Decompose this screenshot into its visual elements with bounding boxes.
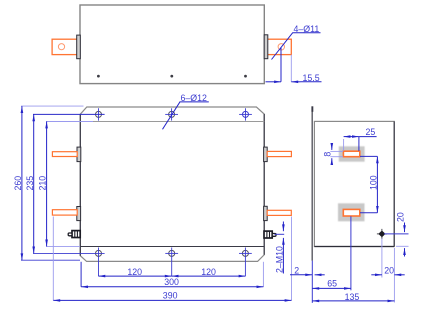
svg-text:235: 235 xyxy=(25,176,35,191)
front left upper terminal xyxy=(52,152,77,157)
ext line body left corner xyxy=(80,262,82,287)
dimension 100 xyxy=(360,156,378,212)
top view left tab hole xyxy=(58,44,64,50)
ext line stud down xyxy=(381,239,383,278)
svg-text:20: 20 xyxy=(384,265,394,275)
hole bottom-middle xyxy=(165,248,178,277)
lower busbar highlight xyxy=(338,203,365,221)
front view outline xyxy=(80,107,264,261)
svg-text:100: 100 xyxy=(368,175,378,190)
front left upper terminal block xyxy=(77,147,81,162)
dimension 8 xyxy=(322,146,343,163)
top view right tab xyxy=(267,39,291,54)
dimension 235 xyxy=(25,114,105,253)
svg-text:210: 210 xyxy=(38,176,48,191)
dimension 210 xyxy=(38,122,93,247)
dimension 390 xyxy=(53,299,291,301)
upper busbar xyxy=(343,151,359,157)
dimension 65 xyxy=(312,279,351,289)
front right upper terminal xyxy=(267,151,291,156)
ext line tab tip xyxy=(290,55,292,82)
svg-text:8: 8 xyxy=(322,152,332,157)
lower busbar xyxy=(343,209,360,216)
top view right terminal block xyxy=(264,35,268,59)
left ground stud xyxy=(68,230,80,238)
dimension 120 left xyxy=(98,275,171,277)
svg-text:2–M10: 2–M10 xyxy=(275,246,285,273)
ext line plate down xyxy=(311,261,313,303)
dimension 2-M10 xyxy=(282,222,284,232)
svg-text:300: 300 xyxy=(164,277,179,287)
side view right edge dark xyxy=(393,121,395,246)
dimension 15.5 xyxy=(266,81,282,83)
dimension 135 xyxy=(312,292,394,302)
svg-text:2: 2 xyxy=(294,266,299,276)
dimension 20 right xyxy=(395,212,405,256)
side view bottom edge dark xyxy=(314,246,394,248)
dimension 300 xyxy=(81,286,263,288)
dimension 2 gap xyxy=(290,266,325,276)
svg-text:120: 120 xyxy=(127,267,142,277)
top view right tab hole xyxy=(278,44,284,50)
top view hole dot 2 xyxy=(170,75,173,78)
hole top-middle xyxy=(165,108,178,120)
top view left tab xyxy=(52,39,77,54)
label 6-012 leader xyxy=(163,102,181,130)
svg-text:135: 135 xyxy=(345,292,360,302)
svg-text:260: 260 xyxy=(13,176,23,191)
ext line hole center xyxy=(280,47,282,82)
dimension 120 right xyxy=(172,275,246,277)
side view back plate xyxy=(311,107,313,261)
label 4-011 leader xyxy=(272,33,293,60)
ext line right tab tip xyxy=(291,217,293,301)
upper busbar highlight xyxy=(339,146,365,161)
svg-text:65: 65 xyxy=(327,279,337,289)
front left lower terminal block xyxy=(77,207,81,221)
svg-text:20: 20 xyxy=(395,212,405,222)
front view right edge dark xyxy=(263,114,265,255)
stud line xyxy=(384,233,409,235)
side view body xyxy=(314,121,394,246)
top view left terminal block xyxy=(77,35,81,59)
front view bottom fold line xyxy=(80,246,264,248)
ext line busbar down xyxy=(350,216,352,290)
hole top-right xyxy=(239,108,252,120)
top view hole dot 3 xyxy=(244,75,247,78)
top view body xyxy=(80,5,264,84)
svg-text:390: 390 xyxy=(163,291,178,301)
dimension 20 bottom xyxy=(371,265,404,275)
stud callout line xyxy=(275,233,285,235)
front right lower terminal xyxy=(267,210,291,215)
hole bottom-left xyxy=(96,248,102,277)
front left lower terminal xyxy=(52,210,77,215)
hole top-left xyxy=(96,108,102,120)
front view left edge dark xyxy=(79,114,81,256)
top view hole dot 1 xyxy=(97,75,100,78)
dimension 260 xyxy=(13,106,84,260)
front right lower terminal block xyxy=(264,206,268,220)
dimension 25 xyxy=(344,127,377,151)
earth stud diamond xyxy=(377,229,387,239)
front view top fold line xyxy=(80,121,264,123)
svg-text:120: 120 xyxy=(201,267,216,277)
front right upper terminal block xyxy=(264,147,268,162)
right ground stud xyxy=(264,231,276,239)
hole bottom-right xyxy=(239,248,252,277)
ext line left tab tip xyxy=(52,217,54,301)
ext line side right down xyxy=(393,248,395,303)
svg-text:25: 25 xyxy=(366,127,376,137)
ext line body bottom right xyxy=(396,245,409,247)
ext line body right corner xyxy=(262,262,264,287)
